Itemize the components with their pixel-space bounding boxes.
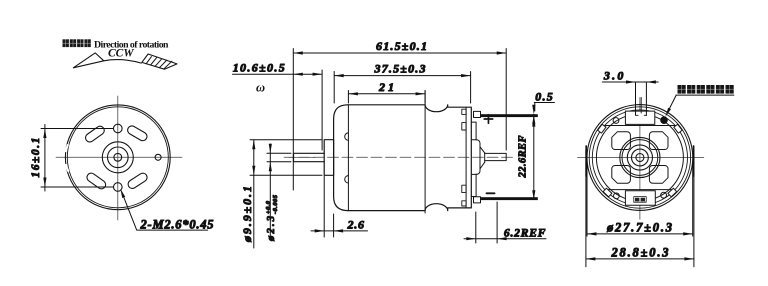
vent slot top-left	[84, 125, 106, 144]
dimension 0.5 terminal thickness	[532, 90, 554, 127]
seam bump top	[345, 133, 349, 140]
center lines	[578, 98, 704, 220]
plate top chord	[605, 125, 675, 127]
rotation hatched tail	[142, 54, 177, 69]
header direction-of-rotation label	[63, 39, 178, 69]
rear view (right)	[578, 98, 704, 220]
terminal block bottom	[625, 191, 655, 206]
dimension 2.6	[311, 176, 368, 237]
screw hole bottom	[114, 183, 123, 192]
svg-text:10.6±0.5: 10.6±0.5	[233, 61, 285, 75]
side tab right	[693, 146, 695, 176]
screw hole top	[114, 124, 123, 133]
center rings	[620, 137, 660, 177]
svg-text:37.5±0.3: 37.5±0.3	[374, 62, 426, 76]
svg-text:ø9.9±0.1: ø9.9±0.1	[240, 186, 254, 243]
dimension ø27.7±0.3	[587, 162, 693, 236]
front bushing	[324, 140, 333, 176]
rim tab top-left	[598, 124, 606, 133]
dimension 10.6±0.5	[233, 61, 323, 151]
side hole	[155, 154, 161, 160]
outer can circle	[65, 105, 170, 210]
svg-text:CCW: CCW	[108, 48, 134, 60]
crimp tab 3	[462, 185, 466, 192]
rear shaft	[485, 153, 507, 160]
terminal pins	[636, 98, 647, 116]
terminal bar plus	[481, 114, 538, 117]
label positive red dot	[664, 85, 734, 118]
cap hole top-left	[613, 118, 619, 124]
outer circle inner line	[589, 107, 690, 208]
svg-text:2-M2.6*0.45: 2-M2.6*0.45	[140, 217, 214, 231]
can rim notches	[66, 145, 69, 171]
svg-text:ω: ω	[256, 81, 265, 95]
can crimp line	[465, 107, 467, 208]
rim tab top-right	[674, 124, 682, 133]
svg-text:22.6REF: 22.6REF	[518, 136, 529, 179]
front view (left)	[56, 96, 182, 220]
rear cone	[480, 147, 485, 169]
side view (middle)	[284, 91, 538, 213]
svg-text:0.5: 0.5	[535, 90, 553, 104]
svg-text:21: 21	[378, 80, 394, 94]
plus symbol	[484, 115, 493, 124]
svg-text:16±0.1: 16±0.1	[30, 138, 42, 178]
rear bearing boss	[472, 140, 480, 175]
brush plate circle	[596, 114, 683, 201]
terminal bar minus	[481, 197, 538, 200]
dimension 28.8±0.3	[586, 150, 694, 267]
terminal base top	[474, 111, 481, 117]
crimp tab 2	[462, 123, 466, 130]
vent slot top-right	[126, 124, 148, 142]
rotation arc	[104, 60, 142, 64]
cap hole bottom-right	[661, 192, 667, 198]
end cap	[471, 122, 476, 196]
leader 2-M2.6*0.45	[119, 188, 214, 231]
rim tab bottom-left	[603, 188, 612, 197]
front cap seam	[347, 105, 349, 211]
svg-text:-0.005: -0.005	[272, 194, 279, 214]
bearing boss rings	[102, 142, 133, 173]
motor can outline	[348, 105, 472, 211]
svg-text:ø27.7±0.3: ø27.7±0.3	[606, 220, 672, 234]
svg-text:ø2.3: ø2.3	[266, 216, 277, 242]
vent slot bottom-left	[85, 171, 107, 190]
svg-text:+0.0: +0.0	[265, 200, 272, 214]
terminal base bottom	[474, 197, 481, 203]
crimp tab 1	[462, 109, 466, 114]
center line dashed	[284, 156, 515, 158]
svg-text:3.0: 3.0	[603, 69, 624, 83]
side tab left	[585, 146, 587, 176]
window top-right	[649, 132, 668, 150]
dimension ø9.9±0.1	[240, 140, 322, 248]
dimension ø2.3	[265, 144, 291, 242]
window top-left	[612, 132, 631, 150]
svg-text:2.6: 2.6	[347, 218, 365, 232]
front shaft	[294, 153, 325, 161]
crimp tab 4	[462, 201, 466, 206]
positive red dot	[660, 116, 668, 124]
dimension 21	[348, 80, 425, 103]
seam bump bottom	[345, 176, 349, 183]
center lines	[56, 96, 182, 220]
terminal block top	[625, 111, 654, 124]
minus symbol	[487, 192, 495, 194]
plate bottom chord	[605, 189, 675, 191]
cap hole bottom-left	[614, 193, 620, 199]
inner can circle	[67, 107, 168, 208]
outer circle	[587, 105, 693, 211]
dimension 22.6REF	[518, 114, 536, 200]
dimension 3.0	[602, 69, 658, 116]
bottom block mark	[634, 197, 646, 203]
rim tab bottom-right	[668, 188, 677, 197]
magnet line	[424, 91, 426, 213]
end cap circle	[592, 110, 687, 205]
svg-text:28.8±0.3: 28.8±0.3	[611, 245, 669, 259]
window bottom-right	[649, 166, 668, 184]
shaft flat line	[289, 156, 315, 158]
window bottom-left	[612, 166, 631, 184]
dimension 61.5±0.1	[293, 39, 506, 190]
svg-text:61.5±0.1: 61.5±0.1	[376, 39, 427, 53]
dimension 6.2REF	[464, 202, 546, 243]
hanzi 旋转方向	[63, 39, 91, 47]
dimension 16±0.1	[30, 125, 114, 192]
dimension 37.5±0.3	[334, 62, 470, 103]
rotation arrowhead	[73, 53, 104, 68]
svg-text:6.2REF: 6.2REF	[504, 228, 546, 240]
vent slot bottom-right	[126, 172, 148, 191]
